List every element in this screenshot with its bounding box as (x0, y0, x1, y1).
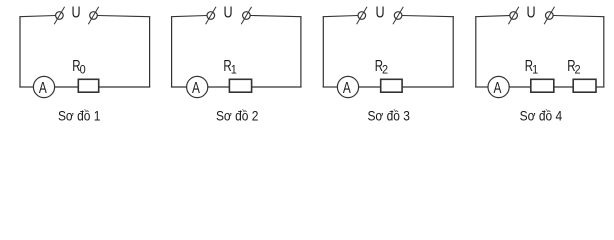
wire resistor to right corner (402, 86, 454, 88)
svg-text:U: U (375, 5, 384, 22)
wire resistor to right corner (596, 86, 605, 88)
svg-text:Sơ đồ 3: Sơ đồ 3 (367, 108, 410, 124)
wire top-left segment (171, 16, 207, 17)
wire to resistor R1 (208, 86, 230, 88)
ammeter A3 (337, 76, 358, 97)
circuit: Sơ đồ 3 (323, 5, 454, 124)
wire bottom-left segment (19, 86, 33, 88)
wire bottom-left segment (475, 86, 488, 88)
svg-text:Sơ đồ 2: Sơ đồ 2 (216, 108, 259, 124)
terminal T1b (slashed circle) (88, 7, 98, 24)
resistor R0 (box) (78, 79, 98, 92)
svg-text:A: A (493, 80, 501, 97)
label R2 (567, 58, 581, 77)
circuit: Sơ đồ 2 (171, 5, 302, 124)
svg-text:1: 1 (532, 63, 538, 77)
terminal T2b (slashed circle) (241, 7, 251, 24)
label R1 (223, 58, 237, 77)
terminal T4a (slashed circle) (508, 7, 518, 24)
wire top-left segment (19, 16, 55, 17)
wire right side (452, 17, 454, 87)
wire right side (300, 17, 302, 87)
wire resistor to right corner (99, 86, 151, 88)
wire to resistor R2 (359, 86, 381, 88)
svg-text:2: 2 (382, 63, 388, 77)
terminal T3b (slashed circle) (393, 7, 403, 24)
terminal T3a (slashed circle) (357, 7, 367, 24)
resistor R1 (box) (229, 79, 251, 92)
wire left side (322, 17, 324, 87)
wire left side (19, 17, 21, 87)
circuit: Sơ đồ 1 (19, 5, 150, 124)
resistor R2 (box) (381, 79, 402, 92)
wire top-left segment (323, 16, 358, 17)
wire top-right segment (250, 16, 301, 17)
terminal T1a (slashed circle) (54, 7, 64, 24)
wire left side (171, 17, 173, 87)
svg-text:1: 1 (231, 63, 237, 77)
svg-text:A: A (39, 80, 47, 97)
svg-text:2: 2 (575, 63, 581, 77)
terminal T2a (slashed circle) (206, 7, 216, 24)
label R0 (72, 58, 86, 77)
svg-text:U: U (71, 5, 80, 22)
wire right side (603, 17, 605, 87)
terminal T4b (slashed circle) (544, 7, 554, 24)
wire top-right segment (97, 16, 150, 17)
ammeter A1 (33, 76, 54, 97)
label R2 (375, 58, 389, 77)
wire to resistor R0 (55, 86, 79, 88)
circuit: Sơ đồ 4 (475, 5, 604, 124)
svg-text:U: U (526, 5, 535, 22)
wire bottom-left segment (171, 86, 187, 88)
label R1 (525, 58, 539, 77)
svg-text:A: A (192, 80, 200, 97)
wire right side (149, 17, 151, 87)
wire bottom-left segment (323, 86, 338, 88)
svg-text:U: U (223, 5, 232, 22)
ammeter A4 (488, 76, 509, 97)
wire top-right segment (553, 16, 604, 17)
resistor R2 (box) (573, 79, 596, 92)
wire top-left segment (475, 16, 510, 17)
wire to resistor R1 (509, 86, 531, 88)
wire to resistor R2 (554, 86, 573, 88)
svg-text:0: 0 (80, 63, 86, 77)
svg-text:A: A (343, 80, 351, 97)
resistor R1 (box) (531, 79, 554, 92)
ammeter A2 (187, 76, 208, 97)
svg-text:Sơ đồ 1: Sơ đồ 1 (58, 108, 101, 124)
wire left side (475, 17, 477, 87)
svg-text:Sơ đồ 4: Sơ đồ 4 (520, 108, 563, 124)
wire resistor to right corner (252, 86, 302, 88)
wire top-right segment (402, 16, 454, 17)
